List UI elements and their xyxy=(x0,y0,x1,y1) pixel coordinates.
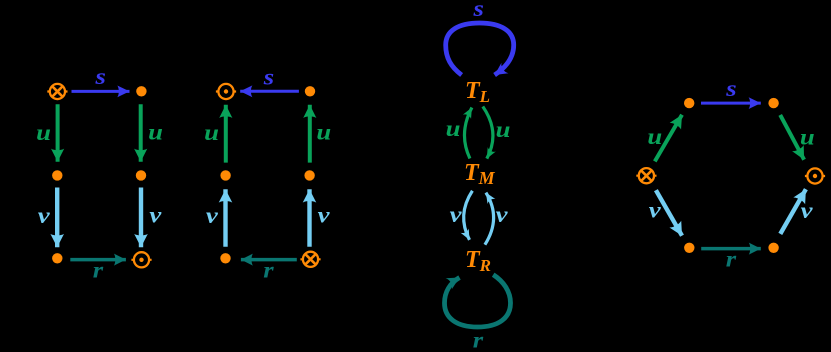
svg-text:r: r xyxy=(263,258,274,283)
svg-text:u: u xyxy=(148,120,163,145)
diagram 1: left square graph xyxy=(36,65,163,283)
svg-text:u: u xyxy=(496,117,511,142)
svg-text:r: r xyxy=(473,328,484,352)
arrow u (up, T_M to T_L) xyxy=(464,108,471,159)
label v (D1 left) xyxy=(38,204,51,229)
arrow v (D2 left, up) xyxy=(223,189,227,247)
svg-text:s: s xyxy=(725,77,736,102)
arrow u (D2 left, up) xyxy=(224,105,228,163)
label u (D2 right) xyxy=(316,120,331,145)
diagram 4: hexagon graph xyxy=(636,77,825,272)
svg-text:u: u xyxy=(36,121,51,146)
label v (hex right) xyxy=(801,199,814,224)
label v (D1 right) xyxy=(149,203,162,228)
label u (hex right) xyxy=(800,125,815,150)
label u (mid right) xyxy=(496,117,511,142)
label v (D2 right) xyxy=(318,203,331,228)
node D1 bottom-right sink (odot) xyxy=(131,252,151,267)
svg-text:s: s xyxy=(263,65,274,90)
svg-text:u: u xyxy=(647,125,662,150)
node hex top-right (dot) xyxy=(768,98,778,108)
node D1 top-right (dot) xyxy=(136,86,146,96)
node hex top-left (dot) xyxy=(684,98,694,108)
svg-text:s: s xyxy=(94,65,105,90)
arrow u (down, T_L to T_M) xyxy=(483,107,493,159)
label r (D1) xyxy=(93,258,104,283)
arrow u (hex upper-right, down-right) xyxy=(780,115,804,160)
svg-text:u: u xyxy=(316,120,331,145)
svg-text:v: v xyxy=(206,204,219,229)
node D2 bottom-right source (otimes) xyxy=(300,252,320,267)
label r (hex) xyxy=(726,247,737,272)
diagram 2: reversed square graph xyxy=(204,65,331,283)
svg-text:r: r xyxy=(726,247,737,272)
node D1 bottom-left (dot) xyxy=(52,253,62,263)
arrow v (hex lower-left, down-right) xyxy=(656,190,682,236)
svg-text:v: v xyxy=(149,203,162,228)
node hex bottom-left (dot) xyxy=(684,243,694,253)
arrow v (down, T_M to T_R) xyxy=(464,191,473,240)
node hex bottom-right (dot) xyxy=(768,243,778,253)
svg-text:v: v xyxy=(496,203,509,228)
arrow u (D1 right, down) xyxy=(139,104,143,162)
svg-text:r: r xyxy=(93,258,104,283)
svg-text:s: s xyxy=(472,0,483,22)
node D2 top-left sink (odot) xyxy=(216,84,236,99)
arrow s (D1 top, right) xyxy=(72,90,130,93)
node D2 bottom-left (dot) xyxy=(220,253,230,263)
label v (mid right) xyxy=(496,203,509,228)
label s (hex) xyxy=(725,77,736,102)
svg-text:u: u xyxy=(446,116,461,141)
label u (mid left) xyxy=(446,116,461,141)
arrow r (D2 bottom, left) xyxy=(241,258,297,262)
svg-text:v: v xyxy=(318,203,331,228)
label r (loop) xyxy=(473,328,484,352)
label v (D2 left) xyxy=(206,204,219,229)
node D1 top-left source (otimes) xyxy=(47,84,67,99)
node D2 mid-left (dot) xyxy=(220,170,230,180)
svg-text:u: u xyxy=(800,125,815,150)
label u (D1 right) xyxy=(148,120,163,145)
svg-text:u: u xyxy=(204,121,219,146)
svg-text:v: v xyxy=(801,199,814,224)
label u (D2 left) xyxy=(204,121,219,146)
node D1 mid-left (dot) xyxy=(52,170,62,180)
arrow v (D2 right, up) xyxy=(307,189,311,247)
label r (D2) xyxy=(263,258,274,283)
label s (D2) xyxy=(263,65,274,90)
svg-text:v: v xyxy=(450,203,463,228)
arrow v (up, T_R to T_M) xyxy=(485,193,494,245)
arrow s (hex top, right) xyxy=(701,102,761,105)
node hex right sink (odot) xyxy=(805,168,825,183)
node D2 top-right (dot) xyxy=(305,86,315,96)
svg-text:v: v xyxy=(649,198,662,223)
arrow s (D2 top, left) xyxy=(240,90,299,93)
label v (hex left) xyxy=(649,198,662,223)
label s (loop) xyxy=(472,0,483,22)
arrow r (D1 bottom, right) xyxy=(70,258,126,262)
label u (D1 left) xyxy=(36,121,51,146)
node D1 mid-right (dot) xyxy=(136,170,146,180)
arrow s self-loop on T_L xyxy=(446,23,514,75)
diagram 3: T_L/T_M/T_R chain xyxy=(445,0,514,352)
arrow v (hex lower-right, up-right) xyxy=(780,189,806,234)
arrow v (D1 right, down) xyxy=(139,188,143,248)
arrow u (hex upper-left, up-right) xyxy=(655,115,682,162)
node D2 mid-right (dot) xyxy=(304,170,314,180)
arrow u (D1 left, down) xyxy=(56,104,60,162)
arrow v (D1 left, down) xyxy=(55,188,59,248)
label s (D1) xyxy=(94,65,105,90)
arrow r (hex bottom, right) xyxy=(701,247,761,251)
label v (mid left) xyxy=(450,203,463,228)
label u (hex left) xyxy=(647,125,662,150)
arrow u (D2 right, up) xyxy=(308,105,312,163)
arrow r self-loop on T_R xyxy=(445,275,511,327)
node hex left source (otimes) xyxy=(636,168,656,183)
svg-text:v: v xyxy=(38,204,51,229)
